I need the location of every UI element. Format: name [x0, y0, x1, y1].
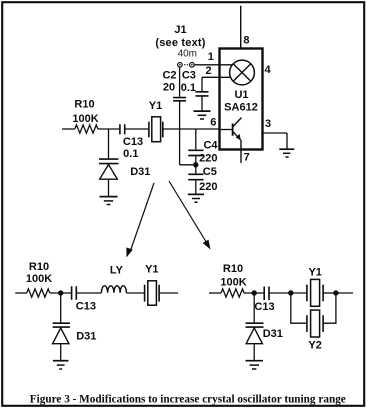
crystal Y1 (top) — [149, 122, 163, 138]
node junction (bottom-right, D31) — [252, 290, 257, 295]
wire LY to Y1 — [126, 292, 144, 294]
svg-text:C2: C2 — [162, 70, 176, 82]
crystal Y1 (bottom-left) — [145, 285, 160, 302]
crystal Y1 (bottom-right) — [307, 285, 323, 302]
ground (C5) — [188, 193, 204, 195]
wire input stub (bottom-left circuit) — [15, 292, 27, 294]
ground (pin 3) — [279, 148, 294, 150]
node left crystal junction — [288, 290, 293, 295]
svg-text:C13: C13 — [123, 136, 143, 148]
wire pin 3 — [263, 133, 288, 148]
resistor R10 (bottom-right) — [221, 289, 244, 297]
wire input stub (top circuit) — [62, 128, 75, 130]
wire pin 7 — [240, 140, 242, 163]
wire right parallel drop — [323, 293, 336, 323]
transistor Q (inside U1) — [232, 123, 234, 135]
svg-text:8: 8 — [243, 35, 249, 47]
wire R10 to C13 (bottom-left) — [50, 292, 71, 294]
node C4/C5 junction — [193, 162, 198, 167]
svg-text:3: 3 — [265, 118, 271, 130]
capacitor C3 — [196, 92, 209, 96]
svg-text:220: 220 — [199, 181, 217, 193]
svg-text:C4: C4 — [203, 140, 218, 152]
ground (C3) — [194, 110, 211, 112]
svg-text:R10: R10 — [74, 99, 94, 111]
svg-text:R10: R10 — [29, 261, 49, 273]
svg-text:LY: LY — [110, 265, 124, 277]
wire pin 6 — [220, 129, 232, 131]
capacitor C5 — [195, 165, 197, 174]
svg-text:D31: D31 — [263, 328, 283, 340]
svg-text:6: 6 — [210, 117, 216, 129]
wire left parallel drop — [291, 293, 307, 323]
wire Y1 to U1 pin 6 — [163, 128, 220, 130]
wire arrow to bottom-right circuit — [169, 181, 207, 243]
svg-text:1: 1 — [208, 51, 214, 63]
ground (D31 top) — [100, 196, 118, 198]
svg-text:Y1: Y1 — [145, 263, 158, 275]
capacitor C2 — [173, 98, 186, 101]
svg-text:0.1: 0.1 — [123, 148, 138, 160]
varactor D31 (bottom-right) — [246, 323, 264, 327]
varactor D31 (top) — [99, 159, 118, 164]
svg-text:D31: D31 — [130, 166, 150, 178]
resistor R10 (top) — [75, 125, 98, 133]
svg-text:R10: R10 — [223, 263, 243, 275]
wire pin 8 — [240, 6, 242, 49]
ground (D31 bottom-right) — [246, 360, 264, 362]
svg-text:Y2: Y2 — [308, 340, 321, 352]
svg-text:D31: D31 — [76, 330, 96, 342]
svg-text:7: 7 — [244, 152, 250, 164]
capacitor C4 — [188, 150, 203, 155]
svg-text:100K: 100K — [26, 273, 52, 285]
wire Y1 to right junction — [323, 292, 336, 294]
mixer symbol U1 — [230, 60, 255, 85]
svg-text:C13: C13 — [76, 300, 96, 312]
op-amp U1 box — [220, 49, 263, 150]
capacitor C13 (top) — [120, 124, 125, 134]
svg-text:Y1: Y1 — [308, 267, 321, 279]
svg-text:20: 20 — [163, 82, 175, 94]
wire pin 1 — [194, 64, 232, 66]
node junction (bottom-left) — [58, 290, 63, 295]
wire D31 branch (bottom-left) — [60, 293, 62, 322]
crystal Y2 — [307, 315, 323, 332]
svg-text:(see text): (see text) — [155, 37, 205, 49]
node right crystal junction — [333, 290, 338, 295]
wire output stub (bottom-right) — [336, 292, 353, 294]
wire R10 to C13 (top) — [98, 128, 119, 130]
svg-text:C5: C5 — [203, 166, 217, 178]
svg-text:2: 2 — [206, 65, 212, 77]
connector J1 jumper terminals — [178, 63, 183, 68]
svg-text:SA612: SA612 — [224, 101, 258, 113]
wire C13 to Y1 (top) — [125, 128, 149, 130]
wire output stub (bottom-left) — [159, 292, 178, 294]
wire arrow to bottom-left circuit — [131, 183, 155, 251]
wire C2 branch through rail to junction — [180, 67, 196, 165]
wire input stub (bottom-right circuit) — [209, 292, 221, 294]
svg-text:0.1: 0.1 — [181, 82, 196, 94]
wire C13 to LY — [76, 292, 101, 294]
capacitor C13 (bottom-left) — [72, 286, 77, 300]
wire pin 2 — [202, 77, 231, 91]
varactor D31 (bottom-left) — [53, 323, 70, 327]
svg-text:Figure 3 - Modifications to in: Figure 3 - Modifications to increase cry… — [30, 394, 346, 406]
svg-text:C3: C3 — [182, 70, 196, 82]
svg-text:100K: 100K — [72, 113, 98, 125]
svg-text:C13: C13 — [254, 301, 274, 313]
wire D31 branch (bottom-right) — [253, 293, 255, 322]
svg-text:220: 220 — [199, 153, 217, 165]
wire C13 to crystals — [269, 292, 307, 294]
svg-text:100K: 100K — [220, 277, 246, 289]
ground (D31 bottom-left) — [53, 360, 69, 362]
wire C4 branch — [195, 129, 197, 149]
wire D31 branch (top) — [108, 129, 110, 158]
capacitor C13 (bottom-right) — [264, 287, 269, 301]
svg-text:J1: J1 — [174, 24, 186, 36]
inductor LY — [101, 286, 126, 293]
wire R10 to C13 (bottom-right) — [244, 292, 264, 294]
svg-text:U1: U1 — [234, 89, 248, 101]
resistor R10 (bottom-left) — [27, 289, 50, 297]
svg-text:4: 4 — [265, 64, 272, 76]
svg-text:40m: 40m — [178, 49, 197, 60]
svg-text:Y1: Y1 — [149, 100, 162, 112]
